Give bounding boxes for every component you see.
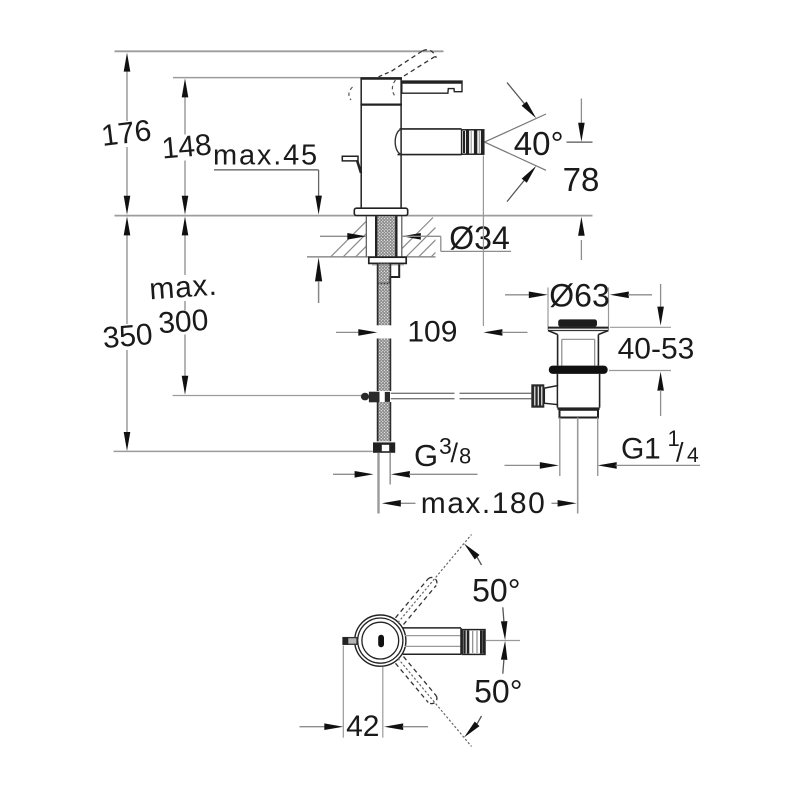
dimension diam34 arrows at hole (320, 235, 349, 237)
drain upper cylinder (557, 335, 559, 366)
handle 50deg upper axis line (398, 535, 472, 623)
flexible supply hose (braided) (377, 264, 391, 326)
threaded shank through countertop (377, 216, 395, 262)
drain centerline (577, 418, 579, 514)
dimension 78 lower arrow (578, 217, 585, 236)
40deg spray angle upper line (485, 114, 547, 142)
dimension max.300 vertical line (184, 224, 186, 387)
svg-text:/: / (451, 438, 459, 468)
countertop underside line (307, 256, 436, 258)
svg-text:40-53: 40-53 (618, 332, 695, 365)
svg-text:40°: 40° (514, 125, 564, 162)
dimension G3/8 arrows (333, 473, 356, 475)
G3/8 nut at hose end (373, 442, 395, 452)
spout outlet extension line (482, 156, 484, 327)
dimension 42 arrows (300, 726, 325, 728)
dashed arc inside head (392, 80, 396, 98)
svg-text:300: 300 (157, 304, 209, 340)
svg-text:50°: 50° (472, 573, 520, 609)
svg-text:/: / (676, 438, 684, 468)
rubber seal ring (549, 366, 608, 374)
svg-text:1: 1 (644, 433, 661, 466)
dimension G1 1/4 arrows (505, 464, 541, 466)
top-view spout (403, 627, 461, 629)
side outlet ribbed connector (531, 384, 544, 407)
dimension max.180 line (400, 502, 558, 504)
top-view aerator (462, 630, 485, 655)
drain flange (548, 327, 609, 329)
upper 50deg arc arrow at centerline (501, 621, 508, 640)
body-top reference line (148) (173, 77, 361, 79)
upper 50deg arc arrow at handle (464, 544, 480, 560)
aerator (side view) (462, 130, 484, 154)
base plinth (354, 208, 407, 215)
top-view centerline right (486, 640, 521, 642)
40-53 extension ticks (610, 326, 671, 328)
40deg lower leader arrow (507, 175, 529, 202)
diam34 leader (402, 235, 441, 237)
dimension diam63 arrows (505, 294, 530, 296)
spout rounded end cap (395, 129, 401, 154)
tailpipe walls (559, 418, 561, 477)
top-view pop-up rod (343, 638, 357, 645)
G3/8 connector tube (377, 453, 379, 514)
handle 50deg upper dashed outline (396, 579, 429, 618)
pop-up knob rod left of body (342, 156, 358, 161)
svg-text:148: 148 (160, 128, 213, 165)
dimension 78 upper arrow (580, 99, 582, 125)
svg-text:176: 176 (99, 114, 153, 153)
dimension 40-53 lower arrow (657, 372, 664, 391)
svg-text:G: G (621, 433, 644, 466)
top reference line (handle max height) (115, 50, 444, 52)
dashed pivot arc left of head (349, 87, 353, 100)
svg-text:G: G (414, 438, 438, 473)
dimension 109 line (336, 331, 359, 333)
dimension 148 vertical line (184, 86, 186, 207)
mounting hole edges (365, 216, 367, 257)
mounting nut profile (378, 264, 399, 283)
lower 50deg arc arrow at centerline (501, 641, 508, 660)
40deg spray angle lower line (485, 142, 547, 170)
svg-text:max.180: max.180 (421, 487, 547, 520)
side outlet cone (544, 386, 557, 405)
pop-up rod to drain (tube) (391, 392, 532, 394)
svg-text:50°: 50° (474, 673, 522, 709)
cartridge slot marker (378, 635, 384, 647)
dimension 42 extension lines (342, 646, 344, 738)
svg-text:max.: max. (148, 269, 218, 307)
dimension 176 vertical line (126, 60, 128, 207)
svg-text:Ø63: Ø63 (549, 277, 609, 313)
lever handle (402, 81, 462, 93)
raised lever dashed position (392, 51, 423, 71)
step ring under valve body (560, 410, 599, 418)
rod joint at hose (361, 393, 369, 401)
svg-text:350: 350 (101, 318, 154, 355)
svg-text:8: 8 (459, 443, 471, 468)
40deg upper leader arrow (507, 83, 530, 111)
max.45 lower arrow under countertop (315, 257, 322, 281)
svg-text:max.45: max.45 (213, 140, 319, 172)
drain plug knob (558, 319, 597, 327)
dimension 350 vertical line (126, 224, 128, 443)
max.300 reference line to pop-up rod (173, 395, 362, 397)
dimension 40-53 upper arrow (660, 284, 662, 307)
valve body (556, 374, 558, 386)
spout height tick (567, 141, 593, 143)
svg-text:4: 4 (687, 444, 699, 467)
cartridge cover seam (360, 103, 402, 105)
svg-text:109: 109 (407, 315, 457, 348)
svg-text:78: 78 (563, 161, 600, 198)
countertop surface line (115, 215, 593, 217)
top-view body circles (355, 615, 406, 666)
cartridge cover top edge (360, 77, 402, 80)
svg-text:42: 42 (346, 710, 379, 743)
spout (400, 128, 462, 130)
handle 50deg lower dashed outline (396, 663, 429, 702)
faucet body outline (361, 78, 401, 208)
diam63 extension lines (547, 288, 549, 331)
label 42 (345, 713, 381, 738)
350 bottom reference line (114, 450, 373, 452)
handle 50deg lower axis line (398, 659, 472, 747)
lower 50deg arc arrow at handle (464, 722, 480, 738)
svg-text:Ø34: Ø34 (449, 220, 509, 256)
mounting washer (369, 257, 406, 263)
